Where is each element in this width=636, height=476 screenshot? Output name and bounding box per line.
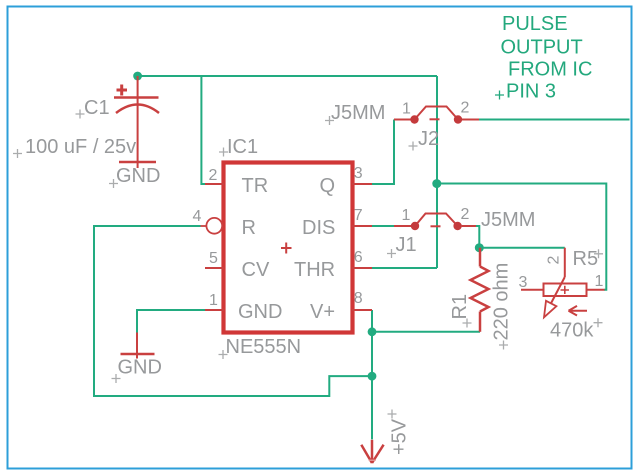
pin 8 V+ stub: [352, 309, 372, 311]
R5 pin number 2 (rotated): [546, 256, 563, 265]
wire node Q-row right to R5 pin 1: [437, 184, 606, 290]
pin 7 DIS stub: [352, 225, 372, 227]
svg-text:1: 1: [402, 101, 411, 118]
svg-text:1: 1: [402, 207, 411, 224]
ground symbol near pin 1: [121, 333, 155, 359]
wire J1 pin 2 down to R1 node: [476, 226, 479, 248]
pin 4 R bubble: [201, 225, 207, 227]
R5 adjust arrow: [569, 306, 588, 316]
wire vertical x437 through J2 and J1 down to THR row: [436, 76, 438, 268]
jumper J1: [394, 214, 476, 231]
wire pin 7 DIS to J1 pin 1: [372, 225, 394, 227]
wire bottom path V+ net to pin 4 R: [94, 226, 372, 396]
jumper J2: [394, 107, 479, 124]
svg-text:+5V: +5V: [389, 418, 411, 455]
wire R1 bottom to V+ net: [372, 331, 480, 333]
svg-text:V+: V+: [310, 301, 335, 323]
svg-text:2: 2: [546, 256, 563, 265]
wire J2 pin 2 output to right edge: [479, 119, 630, 121]
svg-text:GND: GND: [116, 165, 160, 187]
annotation PULSE OUTPUT FROM IC PIN 3: [501, 13, 593, 103]
svg-text:PULSE: PULSE: [502, 13, 568, 35]
svg-text:220 ohm: 220 ohm: [491, 263, 513, 341]
svg-text:C1: C1: [84, 97, 110, 119]
junction R1 top node: [475, 243, 484, 252]
wire THR horizontal to pin 6: [372, 267, 437, 269]
svg-text:FROM IC: FROM IC: [508, 59, 592, 81]
pin 1 GND stub: [205, 309, 224, 311]
capacitor C1: [114, 76, 159, 168]
junction Q row node: [432, 179, 441, 188]
op IC1 NE555N box: [224, 163, 353, 333]
svg-text:1: 1: [209, 292, 218, 309]
svg-text:R5: R5: [573, 248, 599, 270]
svg-text:6: 6: [354, 249, 363, 266]
svg-text:OUTPUT: OUTPUT: [501, 37, 583, 59]
value 220 ohm (rotated): [491, 263, 513, 341]
svg-text:1: 1: [595, 273, 604, 290]
svg-text:TR: TR: [242, 175, 269, 197]
pin 6 THR stub: [352, 267, 372, 269]
svg-text:NE555N: NE555N: [226, 336, 302, 358]
svg-text:THR: THR: [294, 259, 335, 281]
svg-text:8: 8: [354, 290, 363, 307]
ground bar under C1: [119, 161, 156, 164]
junction V+ / R1 bottom: [368, 327, 377, 336]
pin 3 Q stub: [352, 183, 372, 185]
svg-text:PIN 3: PIN 3: [506, 81, 556, 103]
svg-text:3: 3: [519, 274, 528, 291]
pin 5 CV stub: [205, 267, 224, 269]
net label +5V (rotated): [389, 418, 411, 455]
svg-text:Q: Q: [320, 175, 336, 197]
svg-text:2: 2: [209, 167, 218, 184]
wire net VCC-C1 top horizontal: [138, 75, 437, 77]
supply +5V arrow: [361, 440, 383, 463]
svg-text:DIS: DIS: [302, 217, 335, 239]
wire pin 3 Q to J2 pin 1: [372, 120, 394, 185]
svg-text:J5MM: J5MM: [331, 102, 385, 124]
svg-text:7: 7: [354, 207, 363, 224]
svg-text:5: 5: [209, 250, 218, 267]
svg-text:R: R: [242, 217, 256, 239]
svg-text:GND: GND: [238, 301, 282, 323]
wire pin 1 GND to ground symbol: [137, 310, 205, 333]
svg-text:3: 3: [354, 165, 363, 182]
svg-text:2: 2: [461, 100, 470, 117]
svg-text:4: 4: [193, 208, 202, 225]
svg-text:J1: J1: [396, 234, 417, 256]
IC center origin: [281, 243, 292, 254]
svg-text:100 uF / 25v: 100 uF / 25v: [25, 136, 136, 158]
label R1 (rotated): [449, 294, 471, 320]
svg-text:2: 2: [461, 206, 470, 223]
potentiometer R5: [521, 248, 605, 318]
wire pin 8 V+ vertical to +5V: [371, 310, 373, 439]
svg-text:CV: CV: [242, 259, 270, 281]
junction C1 top: [133, 72, 142, 81]
svg-text:J5MM: J5MM: [481, 209, 535, 231]
resistor R1: [471, 248, 489, 332]
junction V+ / reset branch: [368, 372, 377, 381]
wire R1 node to R5 wiper: [479, 247, 565, 249]
svg-text:R1: R1: [449, 294, 471, 320]
svg-text:GND: GND: [118, 357, 162, 379]
wire branch to pin 2 TR: [201, 76, 205, 184]
svg-text:IC1: IC1: [227, 136, 258, 158]
pin 2 TR stub: [205, 183, 224, 185]
svg-text:470k: 470k: [550, 320, 594, 342]
svg-text:J2: J2: [418, 128, 439, 150]
